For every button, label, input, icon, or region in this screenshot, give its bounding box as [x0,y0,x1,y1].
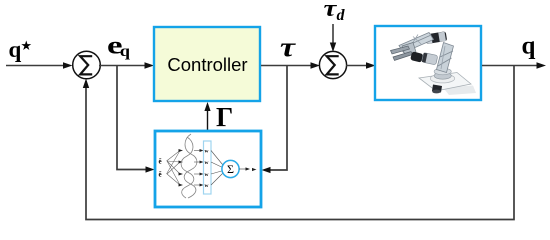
wrist black cylinder [410,51,423,62]
base plate [419,73,471,92]
summing junction S2 [319,51,346,78]
NN wires weights to sigma neuron [211,151,223,186]
svg-text:w: w [205,183,209,189]
wire: disturbance input into S2 [330,24,336,52]
svg-text:q: q [522,33,536,60]
wire: e_q branch down to neural network block [117,66,148,170]
arrowhead: into NN block left [146,166,155,172]
arrowhead: Gamma into controller [204,102,210,111]
svg-text:Σ: Σ [227,162,234,176]
wheel cylinder under plate [432,85,442,93]
arrowhead: into NN block right [262,167,271,173]
NN wavelet activation curves [184,134,197,198]
gripper prong upper [391,46,410,54]
svg-text:ẽ: ẽ [159,171,162,179]
NN output wire with arrow [239,167,257,171]
arrowhead: feedback into S1 [83,79,89,89]
svg-text:w: w [205,160,209,166]
svg-text:w: w [205,149,209,155]
arm truss (upper arm) [399,33,434,53]
NN arrows from activations to weight box [194,151,201,186]
svg-text:Controller: Controller [167,54,247,75]
wire: feedback branch down from output, along bottom, up to S1 [86,66,514,220]
wire: error signal e_q from S1 to Controller [99,62,154,68]
column truss [437,43,454,73]
gripper prong lower [393,52,413,61]
label q* (reference input) [9,35,33,62]
svg-text:w: w [205,172,209,178]
NN fan-out wires from input 2 [167,151,181,186]
label tau_d (disturbance torque) [324,0,346,24]
neural network block [155,131,261,207]
shadow under base plate [443,86,476,96]
NN weight box w1..w4 [204,141,212,194]
summing junction S1 [73,51,101,79]
NN hidden node arrowheads [179,149,184,187]
base hub [435,72,452,77]
wire: robot output q to the right [482,62,546,68]
svg-text:τ: τ [324,0,338,21]
wire: Gamma output from NN up to Controller [207,107,209,131]
robot plant block (robot arm picture) [375,26,481,100]
controller block [154,27,260,101]
svg-text:τ: τ [280,32,297,62]
wire: reference input q* into summing junction S1 [6,62,73,68]
svg-text:q: q [120,42,131,60]
gripper body [402,43,416,56]
forearm silver cylinder [422,53,438,65]
svg-text:ẽ: ẽ [159,158,162,166]
top cylinder (shoulder motor) [425,31,447,44]
label e_q (error signal) [107,31,130,60]
svg-text:⋆: ⋆ [20,35,33,57]
wire: S2 to robot plant block [346,62,376,68]
svg-text:Γ: Γ [216,102,233,132]
NN sigma neuron [222,160,239,177]
wire: tau branch down into NN block right [269,66,288,171]
NN fan-out wires from input 1 [167,151,181,186]
white disc [430,74,454,83]
svg-text:d: d [337,7,346,24]
wire: torque tau from Controller to summing junction S2 [261,62,320,68]
